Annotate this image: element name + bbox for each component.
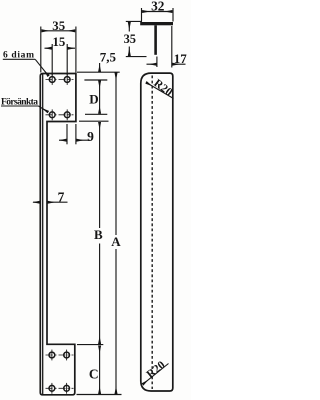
dim D bbox=[99, 81, 101, 114]
svg-text:35: 35 bbox=[124, 32, 136, 46]
ext line step bbox=[79, 120, 109, 122]
ext line top edge (for 7,5 and A) bbox=[77, 71, 120, 73]
dim 7,5 bbox=[99, 63, 101, 72]
hole row 1 centerline bbox=[46, 79, 74, 81]
hole r3c2 bbox=[64, 350, 70, 361]
leader Försänkta bbox=[1, 106, 48, 112]
hole r2c2 bbox=[64, 109, 70, 120]
svg-text:D: D bbox=[89, 91, 98, 106]
dim 9: extension lines bbox=[67, 124, 76, 144]
svg-text:C: C bbox=[89, 366, 99, 381]
hole row 4 centerline bbox=[46, 387, 74, 389]
hole r1c1 bbox=[49, 74, 55, 85]
dim 35 top: dimension line bbox=[42, 30, 76, 32]
front view: inner longitudinal line bbox=[42, 74, 44, 395]
front view: main outline (top plate, narrow strip, bottom plate) bbox=[40, 74, 76, 395]
hole r1c2 bbox=[64, 74, 70, 85]
hole row 2 centerline bbox=[46, 114, 74, 116]
svg-text:B: B bbox=[94, 227, 103, 242]
R20 bottom leader bbox=[143, 364, 169, 385]
svg-text:6 diam: 6 diam bbox=[3, 51, 34, 61]
hole r4c2 bbox=[64, 383, 70, 394]
svg-text:35: 35 bbox=[52, 19, 65, 33]
svg-text:7: 7 bbox=[58, 189, 65, 204]
dim B bbox=[99, 122, 101, 344]
hole r4c1 bbox=[49, 383, 55, 394]
R20 top leader bbox=[146, 82, 174, 98]
dim 17: ext lines bbox=[157, 26, 172, 68]
dim 17: dimension line bbox=[147, 63, 186, 65]
svg-text:7,5: 7,5 bbox=[100, 49, 117, 64]
ext line hole row1 bbox=[84, 79, 107, 81]
svg-text:Försänkta: Försänkta bbox=[1, 98, 38, 108]
dim 15: dimension line (arrows outside) bbox=[45, 47, 76, 49]
ext line bottom edge bbox=[77, 394, 122, 396]
svg-text:32: 32 bbox=[151, 0, 165, 13]
dim 32: dimension line bbox=[142, 11, 172, 13]
dim 35 section: dimension line bbox=[128, 22, 130, 56]
dim 32: ext lines bbox=[142, 8, 174, 22]
dim 15: extension lines bbox=[52, 44, 67, 76]
dim 7: arrows outside bbox=[33, 201, 68, 203]
dim 35 top: extension lines bbox=[41, 27, 76, 73]
svg-text:R20: R20 bbox=[151, 77, 174, 99]
dim 9: arrows outside bbox=[59, 139, 90, 141]
dim C bbox=[99, 346, 101, 394]
T-section flange bbox=[140, 22, 173, 25]
side view outline with rounded ends bbox=[141, 73, 173, 391]
hole r3c1 bbox=[49, 350, 55, 361]
dim A bbox=[115, 73, 117, 394]
ext line hole row2 bbox=[85, 113, 107, 115]
svg-text:R20: R20 bbox=[145, 359, 168, 381]
T-section web bbox=[154, 25, 157, 55]
svg-text:9: 9 bbox=[87, 129, 94, 144]
leader 6 diam bbox=[3, 59, 49, 76]
ext line bottom plate top bbox=[77, 344, 103, 346]
hole r2c1 bbox=[49, 109, 55, 120]
svg-text:15: 15 bbox=[53, 35, 66, 49]
svg-text:17: 17 bbox=[174, 51, 188, 66]
hole row 3 centerline bbox=[46, 354, 74, 356]
side view hidden web line (dashed) bbox=[151, 76, 153, 390]
dim 35 section: ext lines bbox=[126, 21, 147, 56]
svg-text:A: A bbox=[111, 234, 121, 249]
